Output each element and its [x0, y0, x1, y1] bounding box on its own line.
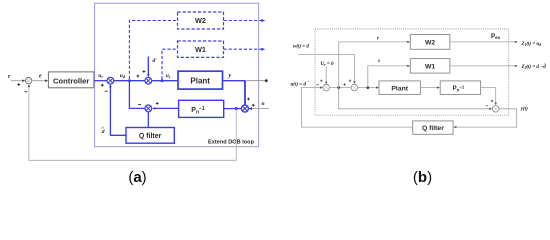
wire S4 to Pn-1 with feedback node [224, 107, 242, 110]
wire S1 to S2 with node u_d [114, 79, 145, 82]
svg-text:Pex: Pex [491, 33, 501, 40]
Pn-1 block [179, 100, 224, 117]
svg-text:ud: ud [120, 73, 126, 79]
svg-text:d′: d′ [152, 58, 157, 64]
svg-text:u(t) = d: u(t) = d [291, 82, 307, 87]
dashed tap u_r to W1 [162, 49, 178, 79]
input r label [8, 74, 11, 80]
summing junction S0 [17, 78, 31, 92]
svg-text:Q filter: Q filter [139, 133, 162, 140]
W2 block [410, 35, 450, 50]
svg-text:uc: uc [98, 73, 103, 79]
Plant block [178, 71, 223, 89]
svg-text:y: y [228, 73, 232, 79]
label n [262, 101, 265, 107]
wire U_r into J1 [325, 67, 327, 85]
svg-text:s: s [377, 58, 380, 64]
svg-text:W1: W1 [425, 63, 435, 70]
wire u_d down to S3 [129, 81, 145, 109]
wire Plant to Pn-1 (b) [420, 86, 440, 88]
svg-text:(b): (b) [413, 169, 432, 186]
summing junction S2 [137, 70, 152, 84]
svg-text:y(t): y(t) [520, 107, 528, 112]
svg-text:n: n [262, 101, 265, 107]
Extend DOB loop outer box [95, 3, 259, 146]
wire Pn-1 down to J3 [481, 88, 497, 106]
Plant block (b) [379, 81, 420, 95]
label s [377, 58, 380, 64]
feedback wire from Pn-1 input node to S0 [28, 84, 237, 160]
Controller block [48, 72, 94, 88]
svg-text:Q filter: Q filter [422, 125, 444, 132]
label: Extend DOB loop [208, 140, 255, 146]
input n arrow into S4 [249, 104, 269, 110]
summing junction J3 [486, 100, 500, 113]
svg-text:r: r [8, 74, 11, 80]
svg-text:ur: ur [166, 73, 171, 79]
label Z1(t) = u_d [521, 42, 542, 47]
svg-text:r: r [377, 36, 380, 42]
label d-hat [102, 126, 105, 135]
label u_r [166, 73, 171, 79]
wire u_r: S2 to Plant with node [152, 79, 178, 82]
label d' [152, 58, 157, 64]
svg-text:W2: W2 [195, 16, 206, 25]
W2 output arrow Z1 [450, 41, 518, 43]
svg-text:Plant: Plant [391, 85, 408, 92]
dashed output arrow of W2 [224, 19, 266, 22]
wire S3 to Q filter [147, 112, 149, 128]
label y [228, 73, 232, 79]
W1 block (dashed) [178, 41, 224, 57]
summing junction S4 [241, 105, 248, 112]
svg-text:W1: W1 [195, 45, 206, 54]
svg-text:Extend DOB loop: Extend DOB loop [208, 140, 255, 146]
wire J2 to Plant with node N2 [358, 86, 379, 89]
svg-text:(a): (a) [128, 169, 146, 186]
svg-text:Z2(t) = d −d: Z2(t) = d −d [521, 65, 547, 70]
svg-text:^: ^ [544, 62, 546, 66]
label w(t) = d [293, 44, 309, 49]
caption (a) [128, 169, 146, 186]
svg-text:Z1(t) = ud: Z1(t) = ud [521, 42, 542, 47]
svg-text:Ur = 0: Ur = 0 [321, 62, 334, 67]
wire e: S0 to Controller [32, 79, 48, 82]
wire y(t): J3 to Q filter [453, 109, 516, 129]
input d' arrow into S2 [147, 57, 150, 78]
wire Pn-1 to S3 [152, 102, 179, 110]
svg-text:Controller: Controller [53, 76, 89, 85]
wire w(t) into J2 [298, 55, 355, 84]
long wire N1 down to J3 [339, 88, 493, 110]
wire r input [11, 79, 25, 82]
summing junction S3 [145, 105, 152, 112]
caption (b) [413, 169, 432, 186]
label r [377, 36, 380, 42]
svg-text:W2: W2 [425, 40, 435, 47]
svg-text:Plant: Plant [190, 77, 210, 86]
label u_c [98, 73, 103, 79]
svg-text:^: ^ [307, 79, 309, 84]
wire y to output node [245, 79, 268, 82]
feedback wire Q filter to J1 [301, 86, 412, 127]
dashed output arrow of W1 [224, 48, 266, 51]
W1 block [410, 59, 450, 74]
Pn-1 block (b) [440, 81, 480, 95]
W2 block (dashed) [178, 12, 224, 29]
wire y down to S4 [245, 81, 250, 105]
label u_d [120, 73, 126, 79]
wire y: Plant output [223, 80, 246, 82]
Q filter block (b) [413, 121, 453, 134]
wire d-hat: Q filter back to S1 [109, 84, 126, 135]
label U_r = 0 [321, 62, 334, 67]
svg-text:w(t) = d: w(t) = d [293, 44, 309, 49]
wire J1 to J2 with node N1 [330, 86, 352, 89]
dashed tap u_d to W2 [129, 21, 177, 80]
Q filter block [126, 128, 174, 144]
label Z2(t) = d - d-hat [521, 62, 547, 70]
summing junction S1 [101, 77, 114, 91]
svg-text:e: e [39, 74, 42, 80]
node e label [39, 74, 42, 80]
W1 output arrow Z2 [450, 65, 518, 67]
P_ex dashed box [315, 29, 509, 115]
summing junction J2 [343, 80, 357, 91]
label u(t) = d-hat [291, 79, 310, 87]
summing junction J1 [316, 80, 329, 91]
label P_ex [491, 33, 501, 40]
tap N1 up to W2 [339, 41, 411, 88]
tap N2 up to W1 [368, 65, 410, 88]
label y(t) [520, 107, 528, 112]
wire u_c: Controller to S1 [94, 80, 107, 82]
